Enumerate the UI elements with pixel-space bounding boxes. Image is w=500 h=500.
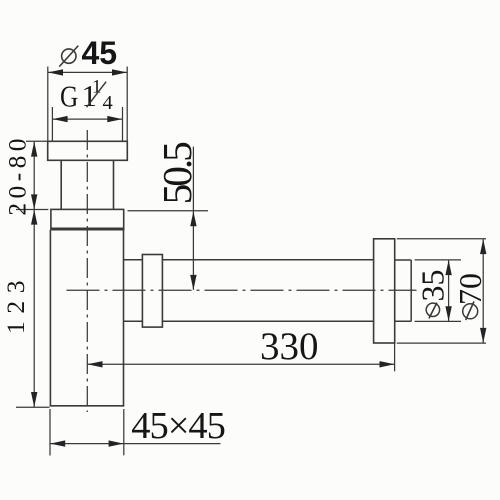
svg-text:4: 4: [103, 92, 113, 114]
svg-text:70: 70: [452, 273, 488, 305]
dimension G 1 1/4: [52, 77, 122, 142]
svg-text:20-80: 20-80: [2, 134, 31, 216]
svg-text:G: G: [60, 80, 78, 114]
horizontal centerline: [67, 289, 417, 291]
wall flange outline: [374, 239, 395, 343]
dimension 20-80: [2, 134, 48, 216]
dimension dia35: [414, 260, 461, 322]
cap nut outline: [51, 209, 124, 229]
neck pipe outline: [61, 160, 113, 209]
top flange outline: [48, 141, 128, 160]
vertical centerline: [86, 130, 88, 412]
body outline: [50, 230, 125, 406]
svg-text:35: 35: [414, 270, 450, 302]
svg-text:45×45: 45×45: [131, 405, 225, 447]
dimension dia70: [397, 239, 488, 343]
dimension 330: [88, 325, 395, 371]
dimension dia45: [48, 35, 127, 142]
dimension 123: [1, 210, 50, 408]
dimension 50.5: [128, 142, 209, 290]
end spigot outline: [395, 260, 412, 321]
dimension 45x45: [50, 405, 225, 456]
outlet pipe outline: [162, 260, 373, 321]
svg-text:123: 123: [1, 273, 30, 334]
svg-text:50.5: 50.5: [154, 142, 200, 205]
outlet nut outline: [142, 255, 162, 328]
svg-text:330: 330: [260, 325, 319, 368]
svg-text:45: 45: [82, 35, 118, 71]
outlet connector stub: [124, 260, 143, 321]
